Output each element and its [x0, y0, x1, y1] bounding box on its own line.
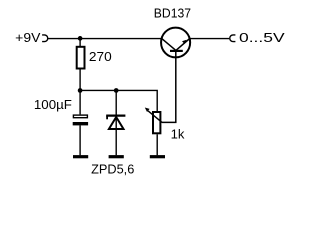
node junction bus-zener: [114, 88, 119, 93]
wire bus horizontal to pot: [80, 90, 157, 112]
zener triangle: [109, 117, 124, 129]
wire wiper to base vertical: [162, 52, 176, 123]
zener diode ZPD5,6 cathode bar: [106, 116, 125, 129]
capacitor C1 100uF top plate: [73, 115, 87, 118]
capacitor C1 bottom plate: [73, 122, 88, 125]
terminal pin output: [230, 35, 236, 42]
wire bus through zener to ground: [115, 90, 117, 155]
potentiometer wiper arrow: [148, 111, 162, 123]
terminal pin +9V: [42, 35, 48, 42]
svg-text:100µF: 100µF: [34, 97, 72, 112]
svg-text:BD137: BD137: [154, 6, 191, 21]
base bar: [170, 50, 183, 52]
wire bus to capacitor top: [79, 90, 81, 114]
emitter arrow: [182, 40, 186, 44]
wire pot bottom to ground: [156, 134, 158, 155]
wire resistor bottom to bus: [79, 69, 81, 91]
wire junction to resistor top: [79, 38, 81, 46]
node junction at R1 top: [78, 36, 83, 41]
collector line: [162, 38, 176, 50]
svg-text:0...5V: 0...5V: [239, 30, 285, 45]
svg-text:ZPD5,6: ZPD5,6: [91, 162, 134, 177]
potentiometer 1k body: [153, 112, 160, 133]
svg-text:+9V: +9V: [15, 30, 41, 45]
ground potentiometer: [150, 155, 165, 158]
wire capacitor to ground: [79, 125, 81, 155]
node junction bus-capacitor: [78, 88, 83, 93]
svg-text:270: 270: [89, 49, 112, 64]
wire +9V to transistor collector: [48, 38, 162, 40]
wire emitter to output: [190, 38, 230, 40]
ground zener: [109, 155, 124, 158]
svg-text:1k: 1k: [171, 127, 185, 142]
transistor Q1 BD137: [161, 28, 190, 58]
emitter line: [176, 39, 190, 51]
resistor 270: [77, 47, 85, 69]
ground capacitor: [73, 155, 88, 158]
